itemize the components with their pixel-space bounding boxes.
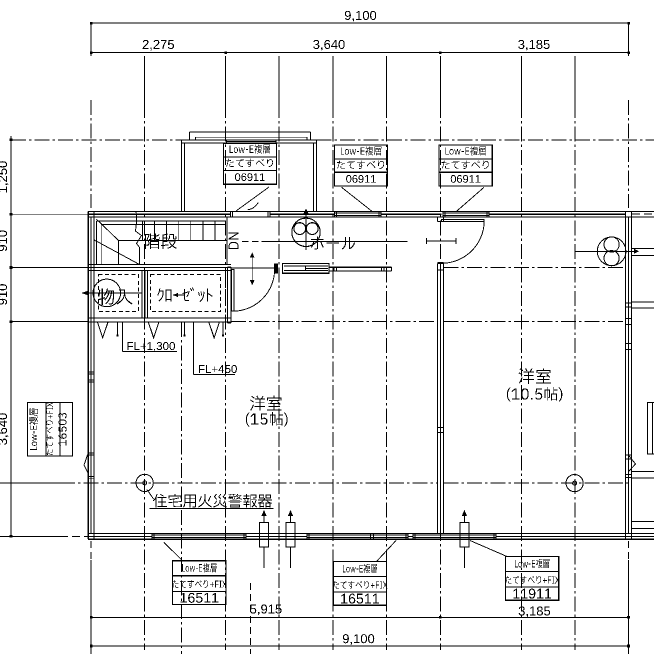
window label box 16511 (mid) bbox=[333, 562, 386, 606]
grid line vertical C x=279.1 bbox=[278, 56, 280, 103]
extension line y3 to dim bbox=[11, 321, 88, 323]
left exterior wall with window 16503 bbox=[87, 211, 89, 539]
window label box 06911 (mid) bbox=[334, 145, 387, 186]
dimension text 3,185 (bottom) bbox=[519, 606, 550, 617]
north wall bay opening jambs bbox=[229, 211, 231, 217]
dimension text 2,275 bbox=[143, 40, 174, 51]
sliding closet door bbox=[282, 263, 329, 273]
window label leader 16511 mid bbox=[377, 541, 397, 562]
extension line y2 to dim bbox=[11, 267, 88, 269]
fire alarm leader bbox=[147, 490, 154, 500]
door to room10.5 panel bbox=[441, 219, 484, 221]
closet hanger dashed rect bbox=[151, 275, 221, 312]
window label leader 16511 left bbox=[164, 542, 183, 560]
casement window direction arrows bbox=[260, 523, 269, 548]
hall label leader line bbox=[242, 240, 259, 242]
storage label 物入 bbox=[98, 288, 132, 304]
grid line vertical window-A hinge dash bbox=[250, 583, 252, 654]
dimension text 9,100 (top) bbox=[345, 11, 376, 22]
grid line horizontal y=267.5 right room bbox=[443, 267, 625, 269]
stair landing edge bbox=[119, 240, 227, 242]
closet divider wall bbox=[141, 270, 143, 317]
ventilation fan symbol bbox=[597, 237, 626, 266]
stair label DN bbox=[229, 232, 239, 249]
grid line vertical H x=574.8 bbox=[574, 56, 576, 103]
dimension line 9,100 (bottom) bbox=[91, 645, 628, 647]
interior wall between rooms bbox=[437, 264, 439, 534]
left dimension text 910 lower bbox=[0, 284, 7, 305]
window label box 16511 (left) bbox=[173, 561, 226, 605]
right wall cut triangle bbox=[629, 456, 636, 472]
hall door clearance mark bbox=[426, 240, 456, 242]
dimension text 3,185 (top) bbox=[518, 40, 549, 51]
grid line vertical left wall axis bbox=[90, 100, 92, 208]
storage hanger dashed rect bbox=[98, 275, 138, 312]
grid line horizontal y=482.9 bbox=[0, 482, 60, 484]
hall ceiling fan symbol bbox=[292, 218, 320, 246]
stair label 階段 bbox=[145, 233, 177, 249]
closet north wall bbox=[88, 264, 231, 266]
extension line north wall to dim bbox=[11, 213, 88, 215]
door to room10.5 jamb cap bbox=[438, 261, 444, 263]
grid line horizontal y=321.6 bbox=[231, 321, 438, 323]
extension line south wall to dim bbox=[0, 535, 60, 537]
fire alarm label 住宅用火災警報器 bbox=[153, 494, 272, 508]
door to room15 header bbox=[232, 267, 275, 269]
bay window swing diagonal bbox=[236, 187, 269, 211]
hall south wall segment bbox=[329, 266, 391, 268]
door to room15 panel bbox=[232, 269, 234, 311]
dimension extension left end bbox=[90, 23, 92, 56]
stair inner boundary bbox=[96, 220, 225, 222]
left dimension text 3,640 bbox=[0, 413, 9, 445]
north exterior wall bbox=[88, 210, 654, 212]
window label leader (mid) bbox=[342, 187, 373, 211]
closet east wall bbox=[226, 267, 228, 323]
dimension text 3,640 (top) bbox=[313, 40, 345, 51]
dimension extension right end bbox=[628, 23, 630, 56]
grid line horizontal bay axis y=139.8 bbox=[11, 139, 181, 141]
south wall windows glazing bbox=[152, 534, 246, 536]
storage arrow bbox=[84, 292, 143, 294]
left dimension text 910 upper bbox=[0, 230, 7, 251]
storage circle symbol bbox=[93, 279, 121, 307]
closet bifold door V marks bbox=[97, 322, 108, 338]
left wall cut triangle bbox=[84, 454, 88, 474]
FL+1300 label bbox=[121, 322, 123, 352]
window label box 06911 (right) bbox=[439, 145, 492, 186]
fire alarm right bbox=[566, 475, 583, 492]
room label 洋室 (15帖) bbox=[250, 396, 281, 411]
stair winder diagonal 2 bbox=[96, 219, 118, 241]
grid line vertical D x=332.8 bbox=[332, 56, 334, 103]
grid line vertical E x=386.6 bbox=[386, 56, 388, 103]
south exterior wall bbox=[88, 532, 654, 534]
grid line vertical right wall axis bbox=[628, 100, 630, 208]
dimension line 5,915 / 3,185 (bottom) bbox=[91, 616, 628, 618]
grid line vertical A x=144.7 bbox=[144, 56, 146, 103]
ventilation fan line+arrow bbox=[575, 250, 632, 252]
hall vent arrow up bbox=[305, 212, 307, 251]
closet south wall bbox=[88, 317, 231, 319]
fire alarm left bbox=[136, 474, 153, 491]
left dimension line bbox=[10, 136, 12, 537]
door jamb post (filled) bbox=[274, 263, 278, 273]
FL+450 label bbox=[192, 322, 194, 375]
stair winder diagonal 1 bbox=[94, 240, 139, 265]
bay window walls bbox=[190, 131, 311, 133]
door to room10.5 swing arc bbox=[442, 222, 485, 264]
closet label クローゼット bbox=[157, 288, 171, 301]
window label leader (right) bbox=[456, 187, 484, 211]
right margin roof stub lines bbox=[631, 248, 654, 250]
dimension line segments 2,275 / 3,640 / 3,185 bbox=[91, 52, 629, 54]
dimension text 5,915 bbox=[250, 604, 281, 615]
stair break line bbox=[136, 212, 142, 265]
door to room15 swing arc bbox=[233, 269, 275, 311]
window label box 11911 bbox=[506, 557, 559, 601]
grid line vertical B x=225.7 bbox=[225, 56, 227, 103]
grid line vertical F x=440.4 bbox=[439, 56, 441, 103]
room label 洋室 (10.5帖) bbox=[519, 368, 551, 383]
window label box 06911 (bay) bbox=[223, 143, 276, 184]
grid line vertical G x=521.6 bbox=[521, 56, 523, 103]
bay window glazing 06911 bbox=[226, 141, 276, 143]
grid line vertical bay-left axis bbox=[180, 322, 182, 654]
window label box 16503 (left wall, rotated) bbox=[28, 402, 73, 456]
window label box right edge (cut) bbox=[648, 403, 654, 454]
closet bifold pivot ticks bbox=[117, 322, 119, 335]
hall label ホール bbox=[311, 237, 355, 250]
hall double arrow bbox=[251, 256, 253, 281]
dimension text 9,100 (bottom) bbox=[343, 634, 374, 645]
dimension line total 9,100 (top) bbox=[91, 22, 629, 24]
right exterior wall with windows bbox=[624, 211, 626, 539]
window label leader 11911 bbox=[470, 541, 507, 557]
stair treads bbox=[142, 221, 144, 241]
left dimension text 1,250 bbox=[0, 161, 9, 192]
north wall windows 06911 glazing bbox=[335, 212, 382, 214]
